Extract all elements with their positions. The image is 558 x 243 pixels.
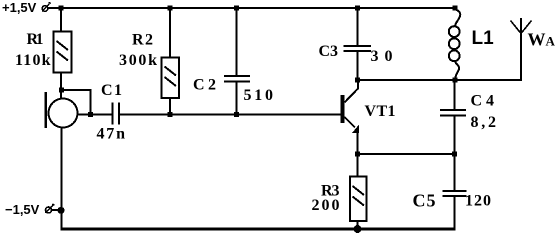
wire mic output to C1 (77, 114, 112, 116)
svg-text:510: 510 (244, 87, 274, 104)
microphone BM1 (46, 92, 78, 128)
svg-text:C2: C2 (193, 77, 216, 94)
wire collector rail to L1 (358, 79, 456, 81)
wire R1 top lead (60, 8, 62, 32)
svg-text:200: 200 (312, 197, 340, 214)
svg-text:+1,5V: +1,5V (2, 0, 37, 15)
node top R2 (167, 6, 172, 11)
svg-text:300k: 300k (119, 52, 157, 69)
resistor R1 (54, 32, 72, 73)
capacitor C3 (344, 46, 372, 51)
transistor VT1 (343, 80, 359, 177)
node R1-mic (59, 88, 64, 93)
svg-text:C3: C3 (319, 43, 339, 60)
wire C2 top lead (236, 8, 238, 76)
svg-text:−1,5V: −1,5V (5, 202, 40, 217)
wire C5 bottom lead (454, 197, 456, 231)
node top L1 (453, 6, 458, 11)
terminal +1,5V (42, 3, 51, 12)
svg-text:C1: C1 (101, 82, 122, 99)
wire C3 bottom lead (357, 52, 359, 81)
wire bottom rail (61, 228, 456, 231)
node collector (355, 78, 360, 83)
wire top rail (48, 7, 456, 9)
wire R2 top lead (169, 8, 171, 58)
node top R1 (59, 6, 64, 11)
svg-text:A: A (546, 34, 556, 49)
node C4 bottom (452, 152, 457, 157)
wire branch to signal (61, 90, 91, 115)
svg-text:120: 120 (465, 193, 491, 210)
node top C3 (355, 6, 360, 11)
capacitor C1 (113, 103, 119, 125)
svg-text:VT1: VT1 (365, 103, 396, 120)
svg-text:R2: R2 (132, 32, 153, 49)
wire C5 top lead (454, 154, 456, 191)
svg-text:110k: 110k (15, 52, 51, 69)
resistor R3 (350, 177, 367, 222)
node -1,5V (58, 207, 65, 214)
terminal -1,5V (46, 204, 61, 213)
resistor R2 (162, 58, 180, 99)
wire R1 bottom lead (60, 73, 62, 99)
capacitor C2 (224, 76, 250, 82)
node emitter (355, 152, 360, 157)
node R3 ground (354, 225, 362, 233)
node R2 bottom (167, 112, 172, 117)
capacitor C5 (443, 191, 467, 196)
wire C2 bottom lead (236, 82, 238, 115)
node C2 bottom (234, 112, 239, 117)
wire antenna feed (455, 32, 521, 80)
node top C2 (234, 6, 239, 11)
wire C3 top lead (357, 8, 359, 46)
inductor L1 (449, 10, 460, 80)
antenna WA1 (511, 18, 532, 34)
wire mic bottom lead (61, 128, 63, 231)
wire C1 to base (120, 114, 341, 116)
wire R3 bottom lead (357, 221, 359, 229)
svg-text:L1: L1 (472, 28, 495, 49)
wire C4 top lead (454, 80, 456, 110)
svg-text:R1: R1 (27, 31, 44, 48)
svg-text:C5: C5 (413, 191, 436, 211)
wire C4 bottom lead (454, 116, 456, 154)
node mic output (88, 112, 93, 117)
svg-text:8,2: 8,2 (471, 114, 497, 131)
wire R2 bottom lead (169, 98, 171, 115)
node L1 bottom (453, 78, 458, 83)
wire emitter to C4/C5 (358, 153, 456, 155)
svg-text:47n: 47n (97, 126, 126, 143)
svg-text:W: W (528, 30, 546, 50)
capacitor C4 (440, 110, 466, 116)
